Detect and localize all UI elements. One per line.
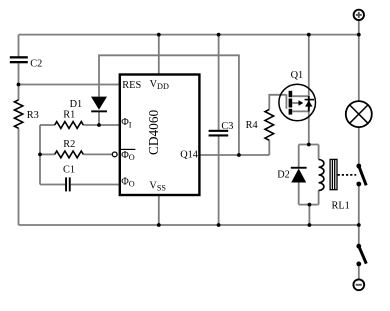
wire R2 left lead xyxy=(40,153,55,155)
junction plus terminal top rail xyxy=(357,33,361,37)
resistor R1 xyxy=(55,122,84,129)
svg-text:C2: C2 xyxy=(30,59,42,70)
wire D1 cathode to node A xyxy=(98,112,100,125)
transistor Q1 MOSFET xyxy=(279,84,316,121)
Q1 body diode bar xyxy=(305,99,314,101)
svg-text:C3: C3 xyxy=(221,121,233,132)
wire plus terminal to top rail xyxy=(358,20,360,34)
lamp xyxy=(346,101,372,127)
junction Q1 drain top rail xyxy=(307,33,311,37)
wire D1 anode feedback (up and over to Q14 net) xyxy=(99,55,239,155)
Q1 body arrow xyxy=(299,100,304,105)
svg-text:RES: RES xyxy=(122,80,141,91)
wire D2 bottom lead xyxy=(298,182,300,204)
svg-text:D1: D1 xyxy=(70,99,83,110)
relay RL1 coil xyxy=(319,160,324,191)
wire C3 lower lead xyxy=(218,136,220,225)
svg-text:CD4060: CD4060 xyxy=(146,110,161,155)
wire left rail upper (top rail to C2) xyxy=(18,35,20,57)
wire relay contact to bottom rail xyxy=(358,186,360,225)
op-amp U1 CD4060 box xyxy=(120,75,200,196)
junction D2 coil bottom xyxy=(308,203,312,207)
switch S1 xyxy=(356,244,366,266)
svg-text:D2: D2 xyxy=(277,170,290,181)
wire bottom rail xyxy=(19,224,359,226)
diode D2 xyxy=(291,167,307,183)
junction VSS bottom rail xyxy=(157,223,161,227)
wire bottom join D2 coil xyxy=(299,204,319,206)
junction C3 top rail xyxy=(217,33,221,37)
wire lamp to relay contact xyxy=(358,127,360,164)
capacitor C2 xyxy=(10,56,28,63)
wire coil bottom lead xyxy=(318,191,320,205)
Q1 body diode triangle xyxy=(305,100,312,106)
wire C1 right lead to pin PhiO xyxy=(71,184,119,186)
Q1 body circle xyxy=(279,84,316,121)
wire VDD pin to top rail xyxy=(158,35,160,75)
Q1 channel segment middle xyxy=(289,99,293,108)
wire D2 top lead xyxy=(298,145,300,168)
wire junction column R1-R2-C1 xyxy=(39,125,41,185)
relay actuation dotted link xyxy=(338,174,357,176)
wire RES pin to left rail xyxy=(19,84,119,86)
wire Q1 drain column xyxy=(308,35,310,145)
inverter bubble on PhiO-bar pin xyxy=(112,152,117,157)
wire R1 right lead to pin PhiI xyxy=(83,124,119,126)
wire C3 upper lead xyxy=(218,35,220,130)
svg-text:R1: R1 xyxy=(63,109,75,120)
junction feedback Q14 xyxy=(237,153,241,157)
wire R2 right lead to inverter bubble xyxy=(83,153,112,155)
Q1 channel segment bottom xyxy=(289,109,293,115)
wire VSS pin to bottom rail xyxy=(158,195,160,225)
wire R1 left lead xyxy=(40,124,55,126)
svg-text:C1: C1 xyxy=(63,164,75,175)
Q1 drain link xyxy=(292,95,309,97)
Q1 body diode lead xyxy=(308,96,310,111)
plus supply terminal xyxy=(354,10,364,20)
junction branch bottom rail xyxy=(308,223,312,227)
Q1 source link xyxy=(292,110,309,112)
minus supply terminal xyxy=(353,279,364,290)
junction D1 R1 PhiI node A xyxy=(97,123,101,127)
wire branch split D2 and relay coil xyxy=(299,144,319,146)
svg-text:R2: R2 xyxy=(63,139,75,150)
resistor R3 xyxy=(14,100,22,129)
wire top rail to lamp xyxy=(358,35,360,102)
wire top supply rail xyxy=(19,34,359,36)
junction VDD top rail xyxy=(157,33,161,37)
svg-text:R3: R3 xyxy=(27,110,39,121)
Q1 channel segment top xyxy=(289,91,293,97)
junction C3 bottom rail xyxy=(217,223,221,227)
capacitor C1 xyxy=(65,177,71,191)
pin PhiO-bar overline xyxy=(121,148,135,150)
wire switch S1 to minus terminal xyxy=(358,266,360,279)
wire left rail R3 to bottom rail xyxy=(18,128,20,225)
junction lamp branch bottom rail xyxy=(357,223,361,227)
junction RES left rail xyxy=(17,83,21,87)
wire bottom rail to switch S1 xyxy=(358,225,360,244)
Q1 body lead xyxy=(292,102,299,104)
junction R2 left xyxy=(38,153,42,157)
wire left rail C2 to R3 xyxy=(18,63,20,100)
wire C1 left lead xyxy=(40,184,65,186)
capacitor C3 xyxy=(209,130,229,137)
svg-text:Q14: Q14 xyxy=(180,149,198,160)
relay contact switch xyxy=(356,164,366,187)
resistor R2 xyxy=(55,151,84,158)
Q1 gate plate xyxy=(285,94,287,109)
wire branch down to bottom rail xyxy=(308,205,310,225)
wire coil top lead xyxy=(318,145,320,160)
svg-text:RL1: RL1 xyxy=(332,201,350,212)
resistor R4 xyxy=(265,109,274,140)
svg-text:R4: R4 xyxy=(246,120,258,131)
junction Q1 source branch xyxy=(307,143,311,147)
wire R4 bottom lead xyxy=(268,140,270,155)
relay RL1 core xyxy=(330,159,337,189)
wire Q14 pin output xyxy=(199,154,269,156)
svg-text:Q1: Q1 xyxy=(291,70,304,81)
diode D1 xyxy=(91,97,107,113)
wire R4 top lead to gate xyxy=(269,95,286,110)
